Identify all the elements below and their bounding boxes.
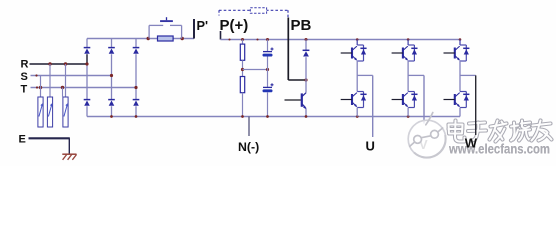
resistor R2 (balancing) <box>240 77 244 93</box>
wire output V line <box>423 75 425 123</box>
dashed link left tick <box>218 10 220 15</box>
node bus-capacitor leg <box>266 38 269 41</box>
wire emitter leg3 to N bus <box>459 108 461 117</box>
wire top DC bus (rectifier to P') <box>87 38 194 40</box>
transistor Q3L (IGBT lower) <box>455 92 467 108</box>
diode D1L (freewheel) <box>360 93 366 95</box>
diode D3L (freewheel) <box>463 93 469 95</box>
resistor R1 (balancing) <box>240 44 244 60</box>
svg-text:U: U <box>366 139 375 154</box>
wire R phase line <box>30 63 88 65</box>
wire rectifier leg 3 upper <box>135 39 137 48</box>
transistor Q2L (IGBT lower) <box>403 92 415 108</box>
node T-varistor1 junction <box>39 86 42 89</box>
wire E ground line <box>29 137 70 139</box>
node phase-leg1 junction <box>85 62 88 65</box>
transistor Q1L (IGBT lower) <box>352 92 364 108</box>
wire base lead Q2U <box>392 52 403 54</box>
node brake collector junction <box>304 78 307 81</box>
diode D4 (rectifier bottom) <box>84 99 91 101</box>
transistor Q1U (IGBT upper) <box>352 45 364 61</box>
diode D2U (freewheel) <box>411 47 417 49</box>
wire resistor leg top <box>242 40 244 45</box>
node phase-leg2 junction <box>110 74 113 77</box>
node R-varistor2 junction <box>48 62 51 65</box>
diode D3U (freewheel) <box>463 47 469 49</box>
wire P' terminal stub <box>193 19 195 39</box>
wire capacitor leg bottom <box>267 92 269 116</box>
node bus tick A <box>228 38 230 40</box>
wire base lead Q2L <box>392 99 403 101</box>
node bus tick B <box>256 38 258 40</box>
diode D5 (rectifier bottom) <box>108 99 115 101</box>
dashed link right tick <box>287 10 289 17</box>
wire brake base lead <box>285 99 301 101</box>
wire varistor1 stub <box>40 76 42 98</box>
node phase-leg3 junction <box>134 86 137 89</box>
svg-text:T: T <box>21 84 28 96</box>
varistor RV2 <box>47 97 52 127</box>
wire positive DC bus <box>221 39 461 41</box>
diode D6 (rectifier bottom) <box>133 99 140 101</box>
wire rectifier leg 2 middle <box>111 54 113 99</box>
node T start <box>36 86 38 88</box>
svg-text:P(+): P(+) <box>220 17 249 34</box>
wire resistor leg bottom <box>242 93 244 117</box>
wire output tap leg1 <box>357 74 373 76</box>
jumper bar (dashed box) <box>250 8 266 14</box>
wire PB terminal line <box>287 18 289 81</box>
node capacitor midpoint <box>266 68 269 71</box>
diode D2 (rectifier top) <box>108 47 115 49</box>
svg-text:PB: PB <box>291 17 312 34</box>
wire output tap leg2 <box>408 74 424 76</box>
node T aux junction <box>61 86 64 89</box>
node N bus junction <box>356 115 359 118</box>
wire negative DC bus <box>87 116 460 118</box>
wire bypass branch top <box>149 24 163 26</box>
wire output tap leg3 <box>460 74 476 76</box>
node S start <box>35 74 37 76</box>
wire base lead Q3L <box>444 99 455 101</box>
wire brake emitter to N bus <box>305 109 307 117</box>
wire inverter leg2 midpoint <box>407 61 409 92</box>
node N bus junction <box>110 115 113 118</box>
wire E drop to ground <box>68 138 70 154</box>
wire N(-) terminal stub <box>248 117 250 137</box>
wire brake leg upper <box>305 40 307 51</box>
varistor RV1 <box>38 97 43 127</box>
transistor Q3U (IGBT upper) <box>455 45 467 61</box>
svg-text:S: S <box>21 71 28 83</box>
svg-text:R: R <box>21 59 29 71</box>
resistor R0 (inrush) <box>158 36 174 41</box>
wire inverter leg1 midpoint <box>356 61 358 92</box>
node P bus leg1 <box>356 38 359 41</box>
wire bypass branch right <box>181 25 183 38</box>
node bus-resistor leg <box>241 38 244 41</box>
wire capacitor leg mid <box>267 57 269 88</box>
capacitor C2 (DC bus) <box>271 84 274 86</box>
wire rectifier leg 1 lower <box>86 106 88 116</box>
node N bus junction <box>241 115 244 118</box>
node bypass right junction <box>181 37 184 40</box>
capacitor C1 (DC bus) <box>271 48 274 50</box>
wire inverter leg2 collector upper <box>407 40 409 46</box>
wire rectifier leg 1 middle <box>86 54 88 64</box>
svg-text:www.elecfans.com: www.elecfans.com <box>448 141 550 157</box>
node R-varistor3 junction <box>64 62 67 65</box>
wire output U line <box>372 75 374 137</box>
svg-text:E: E <box>19 134 26 146</box>
diode D7 (brake freewheel) <box>303 49 310 51</box>
transistor Q2U (IGBT upper) <box>403 45 415 61</box>
watermark logo circle <box>408 120 446 158</box>
wire emitter leg2 to N bus <box>407 108 409 117</box>
node N bus junction <box>305 115 308 118</box>
watermark logo rings and slash <box>410 113 443 147</box>
contact K1 (bypass switch) <box>160 17 172 22</box>
wire rectifier leg 3 middle <box>135 54 137 99</box>
ground symbol <box>62 154 76 160</box>
svg-text:W: W <box>465 136 478 151</box>
wire PB to brake collector <box>288 79 306 81</box>
node N bus junction <box>266 115 269 118</box>
wire rectifier leg 1 upper <box>86 39 88 48</box>
wire bypass branch left <box>148 25 150 38</box>
node bus-brake leg <box>305 38 308 41</box>
node P bus leg3 <box>459 38 462 41</box>
node P bus leg2 <box>407 38 410 41</box>
watermark text 电子发烧友 (approximated glyphs) <box>449 121 552 142</box>
wire T stub <box>62 88 64 97</box>
svg-text:N(-): N(-) <box>238 140 259 154</box>
diode D1U (freewheel) <box>360 47 366 49</box>
svg-text:P': P' <box>197 18 209 33</box>
wire base lead Q3U <box>444 52 455 54</box>
wire midpoint link <box>243 69 268 71</box>
wire inverter leg3 midpoint <box>459 61 461 92</box>
node N bus junction <box>135 115 138 118</box>
node N bus junction <box>407 115 410 118</box>
wire resistor leg mid <box>242 60 244 76</box>
wire inverter leg1 collector upper <box>356 40 358 46</box>
varistor RV3 <box>63 97 68 127</box>
wire output W line <box>475 75 477 135</box>
wire P(+) terminal stub <box>220 31 222 40</box>
wire rectifier leg 3 lower <box>135 106 137 116</box>
wire inverter leg3 collector upper <box>459 40 461 46</box>
diode D2L (freewheel) <box>411 93 417 95</box>
wire base lead Q1L <box>341 99 352 101</box>
wire emitter leg1 to N bus <box>356 108 358 117</box>
diode D1 (rectifier top) <box>84 47 91 49</box>
wire capacitor leg top <box>267 40 269 52</box>
wire base lead Q1U <box>341 52 352 54</box>
wire brake leg middle <box>305 57 307 93</box>
wire S phase line <box>31 75 112 77</box>
dashed link P'-P(+) top <box>219 9 288 11</box>
wire rectifier leg 2 lower <box>111 106 113 116</box>
node bypass left junction <box>147 37 150 40</box>
wire varistor2 stub <box>49 64 51 97</box>
wire rectifier leg 2 upper <box>111 39 113 48</box>
wire T phase line <box>31 87 137 89</box>
diode D3 (rectifier top) <box>133 47 140 49</box>
node resistor midpoint <box>241 68 244 71</box>
transistor Q7 (brake IGBT) <box>302 93 307 109</box>
wire varistor3 stub <box>65 64 67 97</box>
